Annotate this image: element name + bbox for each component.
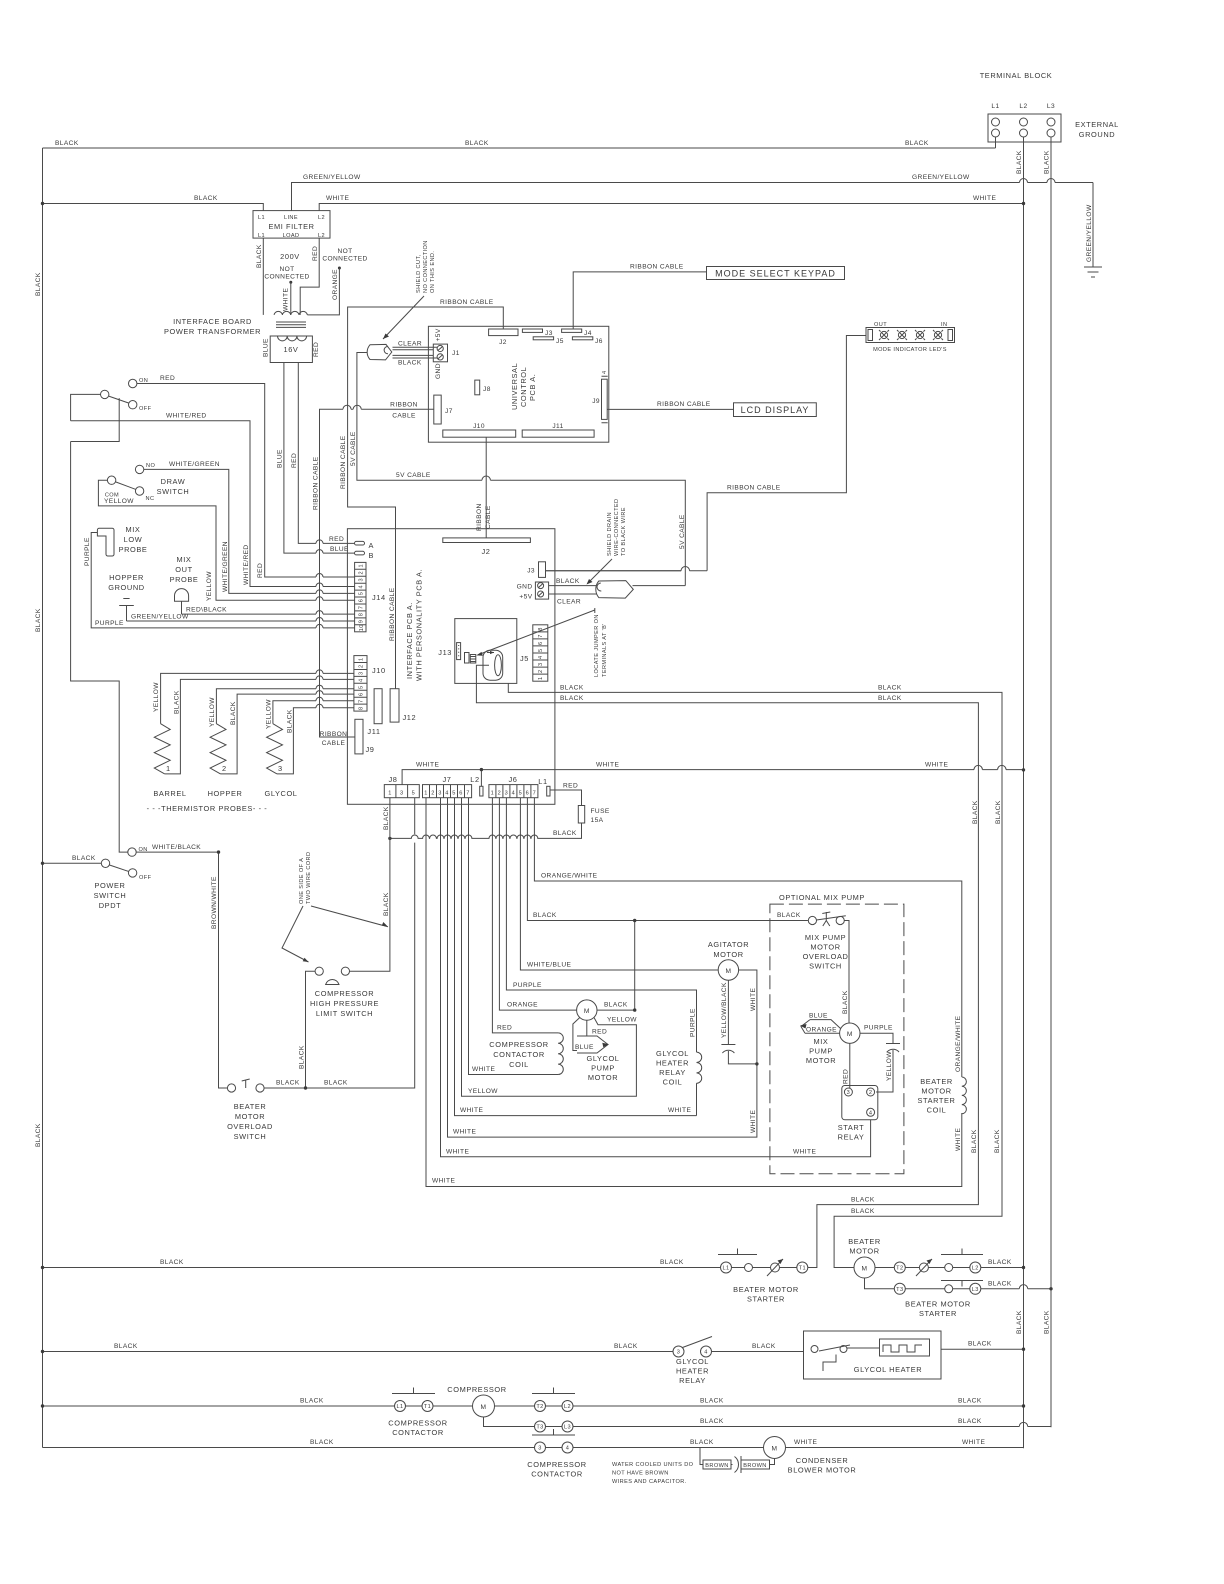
svg-text:BLACK: BLACK [690,1439,714,1446]
wire white condenser blower to L2 column [786,1439,1024,1448]
relay glycol heater contacts 3/4 [673,1337,712,1386]
svg-text:MIX: MIX [126,525,141,534]
thermistor 1 barrel [153,670,354,798]
svg-text:BLACK: BLACK [777,912,801,919]
connector GND +5V interface screw terminals [517,582,549,601]
svg-text:BROWN: BROWN [743,1463,766,1469]
wire yellow glycol pump motor to J7-6 [462,798,638,1097]
svg-text:POWER TRANSFORMER: POWER TRANSFORMER [164,327,261,336]
svg-text:L3: L3 [564,1425,571,1431]
svg-text:3: 3 [677,1350,681,1356]
svg-text:M: M [772,1446,778,1453]
switch mix pump motor overload [803,912,849,971]
svg-text:BLACK: BLACK [398,360,422,367]
svg-text:BEATER MOTOR: BEATER MOTOR [905,1300,971,1309]
svg-text:WHITE: WHITE [793,1149,816,1156]
thermistor 3 glycol [264,697,353,798]
svg-text:WHITE/GREEN: WHITE/GREEN [222,541,229,592]
connector J5 universal [533,337,564,345]
svg-text:BLACK: BLACK [851,1208,875,1215]
svg-text:CABLE: CABLE [392,413,416,420]
svg-text:T1: T1 [424,1404,431,1410]
wire black J1 [393,355,438,366]
svg-text:6: 6 [359,599,365,603]
svg-text:HEATER: HEATER [656,1059,689,1068]
starter beater motor left L1/T1 [718,1249,808,1304]
svg-text:DRAW: DRAW [161,477,186,486]
wire purple J6-3 to glycol heater relay coil [506,798,696,1052]
wire mix switch leg down to power switch [71,442,128,853]
svg-text:BLACK: BLACK [994,1129,1001,1153]
wire white/red mix switch to J14 pin4 [71,394,355,586]
svg-text:RED: RED [592,1029,607,1036]
svg-text:YELLOW: YELLOW [209,697,216,727]
svg-text:L1: L1 [722,1266,729,1272]
svg-text:BLACK: BLACK [878,695,902,702]
svg-text:BLACK: BLACK [1016,150,1023,174]
connector J3 interface [527,562,545,578]
svg-text:PROBE: PROBE [170,575,199,584]
motor condenser blower [764,1437,857,1475]
svg-text:YELLOW: YELLOW [153,682,160,712]
terminal A [355,541,375,550]
wire black J13 lower to beater starter T1 [476,665,979,1267]
svg-text:SWITCH: SWITCH [234,1132,267,1141]
svg-text:3: 3 [538,662,544,666]
svg-text:J6: J6 [508,775,517,784]
wire EMI load L2 red [300,238,319,315]
wire black compressor row1 to L2 column [573,1398,1025,1408]
wire black relay 4 to glycol heater [712,1343,804,1352]
svg-text:M: M [725,968,731,975]
svg-text:BLACK: BLACK [35,1123,42,1147]
svg-text:RIBBON CABLE: RIBBON CABLE [630,264,684,271]
svg-text:RED: RED [313,342,320,357]
svg-text:M: M [847,1031,853,1038]
svg-text:WIRES AND CAPACITOR.: WIRES AND CAPACITOR. [612,1479,687,1485]
svg-text:RELAY: RELAY [659,1068,686,1077]
svg-text:BLACK: BLACK [533,912,557,919]
svg-text:WHITE: WHITE [973,195,996,202]
terminal B [355,551,375,560]
svg-text:2: 2 [359,664,365,668]
svg-text:BLACK: BLACK [968,1341,992,1348]
wire clear +5V to twisted pair [549,594,597,606]
svg-text:WITH PERSONALITY PCB A.: WITH PERSONALITY PCB A. [415,569,424,681]
switch draw [105,463,190,502]
capacitor yellow/black agitator [721,980,759,1065]
wire black glycol heater relay row from left bus [41,1343,673,1353]
starter beater motor right T2/L2 [875,1249,983,1319]
svg-text:COIL: COIL [927,1106,947,1115]
svg-text:L2: L2 [470,775,479,784]
svg-text:LIMIT SWITCH: LIMIT SWITCH [316,1009,373,1018]
svg-text:CLEAR: CLEAR [557,599,581,606]
svg-text:RIBBON CABLE: RIBBON CABLE [340,435,347,489]
svg-text:- - -THERMISTOR PROBES- - -: - - -THERMISTOR PROBES- - - [147,804,268,813]
coil beater motor starter [917,1077,966,1115]
svg-text:RED: RED [563,783,578,790]
svg-text:BLACK: BLACK [842,990,849,1014]
svg-text:BLACK: BLACK [114,1343,138,1350]
connector J9 universal [592,370,608,422]
svg-text:SWITCH: SWITCH [157,487,190,496]
svg-text:BLUE: BLUE [330,546,349,553]
svg-text:WIRE-CONNECTED: WIRE-CONNECTED [614,499,620,557]
switch beater motor overload [227,1079,273,1141]
motor glycol pump [577,1000,620,1082]
svg-text:L2: L2 [564,1404,571,1410]
connector J11 universal [522,423,594,437]
svg-text:TERMINALS AT 'B': TERMINALS AT 'B' [602,623,608,677]
svg-text:STARTER: STARTER [917,1096,955,1105]
wire black GND to twisted pair [549,578,597,586]
switch mix on/off [101,378,152,412]
svg-text:4: 4 [359,585,365,589]
EMI filter [253,211,330,239]
svg-text:RIBBON CABLE: RIBBON CABLE [727,485,781,492]
svg-text:2: 2 [498,791,502,797]
connector J3 universal [522,329,552,337]
terminal L2 interface [470,775,483,796]
svg-text:INTERFACE BOARD: INTERFACE BOARD [173,317,252,326]
svg-text:BLACK: BLACK [988,1281,1012,1288]
svg-text:COMPRESSOR: COMPRESSOR [447,1385,506,1394]
connector J8 universal [475,380,491,395]
LED symbols [879,330,943,340]
svg-text:BLACK: BLACK [752,1343,776,1350]
svg-text:BLACK: BLACK [905,140,929,147]
connector J7 interface [423,775,472,798]
wire black overload to mix pump motor [842,921,849,1023]
svg-text:HOPPER: HOPPER [208,789,243,798]
svg-text:1: 1 [491,791,495,797]
svg-text:BLACK: BLACK [194,195,218,202]
wire ribbon cable J9 to LCD [607,401,733,409]
cable red/blue glycol pump motor [573,1018,609,1054]
connector J7 universal [434,395,453,424]
svg-text:RED: RED [497,1025,512,1032]
svg-text:COIL: COIL [663,1078,683,1087]
svg-text:BROWN: BROWN [705,1463,728,1469]
svg-text:WHITE: WHITE [460,1107,483,1114]
ground external symbol [1084,267,1102,277]
svg-text:BLUE: BLUE [263,338,270,357]
svg-text:POWER: POWER [95,881,126,890]
motor agitator [708,940,749,980]
svg-text:BLACK: BLACK [560,685,584,692]
svg-text:1: 1 [388,791,392,797]
svg-text:3: 3 [278,764,283,773]
svg-text:MIX PUMP: MIX PUMP [805,933,846,942]
svg-text:RED: RED [843,1069,850,1084]
svg-text:2: 2 [359,571,365,575]
svg-text:OVERLOAD: OVERLOAD [227,1122,273,1131]
svg-text:RED: RED [329,536,344,543]
note locate jumper on terminals at B [477,608,609,677]
motor mix pump [806,1023,860,1065]
wire white/blue J6-5 to agitator motor [520,798,718,970]
svg-text:NOT: NOT [337,248,352,255]
svg-text:GREEN/YELLOW: GREEN/YELLOW [303,174,361,181]
svg-text:BLACK: BLACK [972,800,979,824]
probe mix out [170,555,199,614]
svg-text:RED\BLACK: RED\BLACK [186,607,227,614]
svg-text:5: 5 [538,648,544,652]
toroid core [483,650,503,680]
svg-text:RED: RED [312,246,319,261]
svg-text:7: 7 [359,699,365,703]
svg-text:J8: J8 [388,775,397,784]
svg-text:J6: J6 [595,338,603,345]
svg-text:START: START [838,1123,865,1132]
wire white/black power switch to beater overload [136,844,227,1088]
svg-text:PUMP: PUMP [591,1064,615,1073]
contactor compressor L1/T1 [388,1388,472,1438]
svg-text:TO BLACK WIRE: TO BLACK WIRE [621,507,627,556]
wire white top [319,195,1025,211]
svg-text:STARTER: STARTER [747,1295,785,1304]
connector J2 universal [489,329,518,346]
svg-text:WHITE: WHITE [925,762,948,769]
wire black glycol heater to L2 column [941,1341,1025,1351]
motor compressor [447,1385,506,1417]
svg-text:BLACK: BLACK [878,685,902,692]
svg-text:TERMINAL BLOCK: TERMINAL BLOCK [980,71,1053,80]
svg-text:J3: J3 [527,568,535,575]
svg-text:BROWN/WHITE: BROWN/WHITE [211,876,218,929]
terminal L1 interface [538,777,550,796]
svg-text:T2: T2 [536,1404,543,1410]
svg-text:MOTOR: MOTOR [810,943,840,952]
svg-text:BLACK: BLACK [160,1259,184,1266]
fuse 15A [578,806,610,825]
svg-text:WHITE: WHITE [416,762,439,769]
svg-text:16V: 16V [284,345,299,354]
svg-text:GLYCOL: GLYCOL [676,1357,709,1366]
wire black J13 upper to beater motor [508,683,1002,1267]
svg-text:UNIVERSAL: UNIVERSAL [510,363,519,410]
svg-text:J5: J5 [556,338,564,345]
svg-text:WHITE: WHITE [962,1439,985,1446]
wire black bus J8 pin1 to fuse [383,806,582,840]
svg-text:J2: J2 [481,547,490,556]
svg-text:BLACK: BLACK [1044,150,1051,174]
note shield drain wire connected to black wire [587,499,628,585]
svg-text:YELLOW: YELLOW [886,1051,893,1081]
svg-text:YELLOW: YELLOW [468,1088,498,1095]
svg-text:BLACK: BLACK [700,1418,724,1425]
svg-text:HEATER: HEATER [676,1367,709,1376]
svg-text:BLACK: BLACK [35,608,42,632]
svg-text:IN: IN [941,322,947,328]
svg-text:5: 5 [412,791,416,797]
svg-text:WHITE: WHITE [596,762,619,769]
svg-text:2: 2 [431,791,435,797]
svg-text:L1: L1 [258,233,265,239]
svg-text:GREEN/YELLOW: GREEN/YELLOW [912,174,970,181]
svg-text:J10: J10 [473,423,485,430]
svg-text:1: 1 [359,657,365,661]
svg-text:BLACK: BLACK [560,695,584,702]
svg-text:BLACK: BLACK [700,1398,724,1405]
wire beater motor row2 T3/L3 [865,1278,1053,1294]
switch power DPDT [94,847,152,910]
svg-text:BEATER: BEATER [234,1102,267,1111]
note one side of a two wire cord [282,852,388,962]
note shield cut no connection [383,240,436,339]
svg-text:ORANGE: ORANGE [332,269,339,300]
svg-text:DPDT: DPDT [99,901,122,910]
connector J14 interface [355,562,386,631]
svg-text:ORANGE/WHITE: ORANGE/WHITE [541,873,598,880]
svg-text:T3: T3 [536,1425,543,1431]
connector J4 universal [562,329,592,337]
svg-text:WHITE: WHITE [794,1439,817,1446]
svg-text:L1: L1 [991,103,999,110]
wire transformer secondary blue [277,363,355,554]
svg-text:CONDENSER: CONDENSER [796,1456,849,1465]
svg-text:CLEAR: CLEAR [398,341,422,348]
op board interface PCB with personality PCB [347,529,555,805]
wire black beater row1 from left bus [41,1259,721,1269]
svg-text:OFF: OFF [139,406,152,412]
svg-text:BLACK: BLACK [310,1439,334,1446]
svg-text:SHIELD DRAIN: SHIELD DRAIN [607,512,613,556]
svg-text:BLACK: BLACK [556,578,580,585]
svg-text:CONTROL: CONTROL [519,367,528,407]
svg-text:CONNECTED: CONNECTED [264,274,309,281]
svg-text:GND: GND [517,584,533,591]
svg-text:WHITE: WHITE [955,1128,962,1151]
svg-text:WHITE/GREEN: WHITE/GREEN [169,461,220,468]
svg-text:3: 3 [359,671,365,675]
svg-text:6: 6 [459,791,463,797]
label not connected orange tap [307,248,367,315]
svg-text:5V CABLE: 5V CABLE [350,431,357,466]
connector J12 interface [390,689,416,722]
svg-text:3: 3 [400,791,404,797]
svg-text:BLOWER MOTOR: BLOWER MOTOR [788,1466,857,1475]
svg-text:RIBBON: RIBBON [476,503,483,531]
svg-text:WHITE: WHITE [283,288,290,311]
svg-text:BLACK: BLACK [324,1080,348,1087]
svg-text:NC: NC [146,496,155,502]
svg-text:J7: J7 [442,775,451,784]
svg-text:J1: J1 [452,350,460,357]
svg-text:+5V: +5V [519,594,532,601]
svg-text:BEATER MOTOR: BEATER MOTOR [733,1285,799,1294]
relay start [838,1086,878,1142]
box mode indicator LEDs [866,322,955,353]
svg-text:2: 2 [222,764,227,773]
svg-text:BLACK: BLACK [1044,1310,1051,1334]
svg-text:HIGH PRESSURE: HIGH PRESSURE [310,999,379,1008]
wire J3 interface to LED ribbon [546,570,682,572]
ground hopper [108,573,144,621]
connector J11 interface [367,689,382,736]
svg-text:4: 4 [704,1350,708,1356]
svg-text:WHITE: WHITE [472,1066,495,1073]
wire yellow draw switch to J14 pin6 [98,480,354,601]
wire red mix switch to J14 pin3 [137,375,355,578]
svg-text:10: 10 [359,624,365,631]
svg-text:4: 4 [602,370,608,374]
svg-text:BLACK: BLACK [553,830,577,837]
wire black J8 pin5 to overload row [264,798,415,1090]
svg-text:GND: GND [435,363,442,379]
svg-text:MOTOR: MOTOR [806,1056,836,1065]
wire ribbon cable J7 to interface J9 [313,402,434,738]
connector J10 universal [443,423,516,437]
connector J5 interface [520,625,548,681]
svg-text:15A: 15A [591,817,604,824]
svg-text:M: M [584,1008,590,1015]
svg-text:L2: L2 [972,1266,979,1272]
svg-text:BLACK: BLACK [383,892,390,916]
svg-text:BLACK: BLACK [660,1259,684,1266]
svg-text:RELAY: RELAY [679,1376,706,1385]
svg-text:OVERLOAD: OVERLOAD [803,952,849,961]
svg-text:T1: T1 [799,1266,806,1272]
svg-text:WHITE: WHITE [326,195,349,202]
wire white J7-3 to start relay [441,798,871,1157]
svg-text:LOW: LOW [124,535,143,544]
svg-text:CONTACTOR: CONTACTOR [493,1050,545,1059]
svg-text:BLUE: BLUE [575,1044,594,1051]
motor beater [848,1237,881,1278]
svg-text:L3: L3 [1047,103,1055,110]
svg-text:GROUND: GROUND [108,583,144,592]
svg-text:4: 4 [538,655,544,659]
svg-text:EXTERNAL: EXTERNAL [1075,120,1119,129]
svg-text:M: M [481,1404,487,1411]
terminal block [988,103,1061,142]
svg-text:WHITE/RED: WHITE/RED [243,544,250,585]
svg-text:8: 8 [359,613,365,617]
svg-text:J11: J11 [367,727,380,736]
wire orange J6-2 to glycol pump motor [499,798,576,1010]
svg-text:GLYCOL: GLYCOL [656,1049,689,1058]
wire transformer secondary red [291,363,355,544]
svg-text:SWITCH: SWITCH [94,891,127,900]
svg-text:RED: RED [160,375,175,382]
coil compressor contactor [489,1033,563,1075]
svg-text:GROUND: GROUND [1079,130,1115,139]
wire purple mix pump motor to capacitor [860,1025,900,1093]
wire ribbon cable J2 universal to J12 interface [340,299,503,689]
wire black J6-6 to mix pump overload [527,798,808,923]
svg-text:4: 4 [445,791,449,797]
svg-text:NO CONNECTION: NO CONNECTION [423,240,429,293]
wire black power switch pole to left bus [41,855,102,865]
svg-text:2: 2 [869,1090,873,1096]
svg-text:NOT HAVE BROWN: NOT HAVE BROWN [612,1471,669,1477]
svg-text:HOPPER: HOPPER [109,573,144,582]
svg-text:RIBBON: RIBBON [390,402,418,409]
svg-text:MOTOR: MOTOR [849,1247,879,1256]
svg-text:CONTACTOR: CONTACTOR [392,1428,444,1437]
svg-text:+5V: +5V [435,328,442,341]
svg-text:WHITE: WHITE [750,1110,757,1133]
svg-text:BLACK: BLACK [614,1343,638,1350]
svg-text:WHITE: WHITE [750,988,757,1011]
svg-text:COMPRESSOR: COMPRESSOR [527,1460,586,1469]
svg-text:1: 1 [424,791,428,797]
svg-text:BLACK: BLACK [995,800,1002,824]
svg-text:7: 7 [359,606,365,610]
svg-text:J9: J9 [366,745,375,754]
